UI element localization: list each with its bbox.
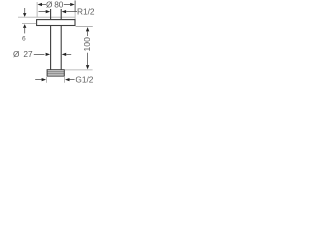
svg-text:Ø27: Ø27 xyxy=(13,49,33,59)
svg-text:100: 100 xyxy=(82,37,92,52)
svg-text:R1/2: R1/2 xyxy=(77,7,95,17)
dimension 100 xyxy=(65,27,93,70)
escutcheon plate xyxy=(37,20,75,26)
dimension Ø 27 xyxy=(13,49,71,59)
ceiling line xyxy=(18,16,75,18)
dimension G1/2 xyxy=(35,75,94,85)
dimension R1/2 xyxy=(39,7,95,17)
dimension Ø 80 xyxy=(37,0,75,19)
dimension plate height 6 xyxy=(22,8,36,42)
svg-text:6: 6 xyxy=(22,35,26,42)
top thread stub R1/2 xyxy=(51,9,62,19)
pipe body xyxy=(51,26,62,70)
svg-text:G1/2: G1/2 xyxy=(75,75,93,85)
bottom thread G1/2 xyxy=(47,70,64,76)
svg-text:Ø80: Ø80 xyxy=(46,0,64,9)
